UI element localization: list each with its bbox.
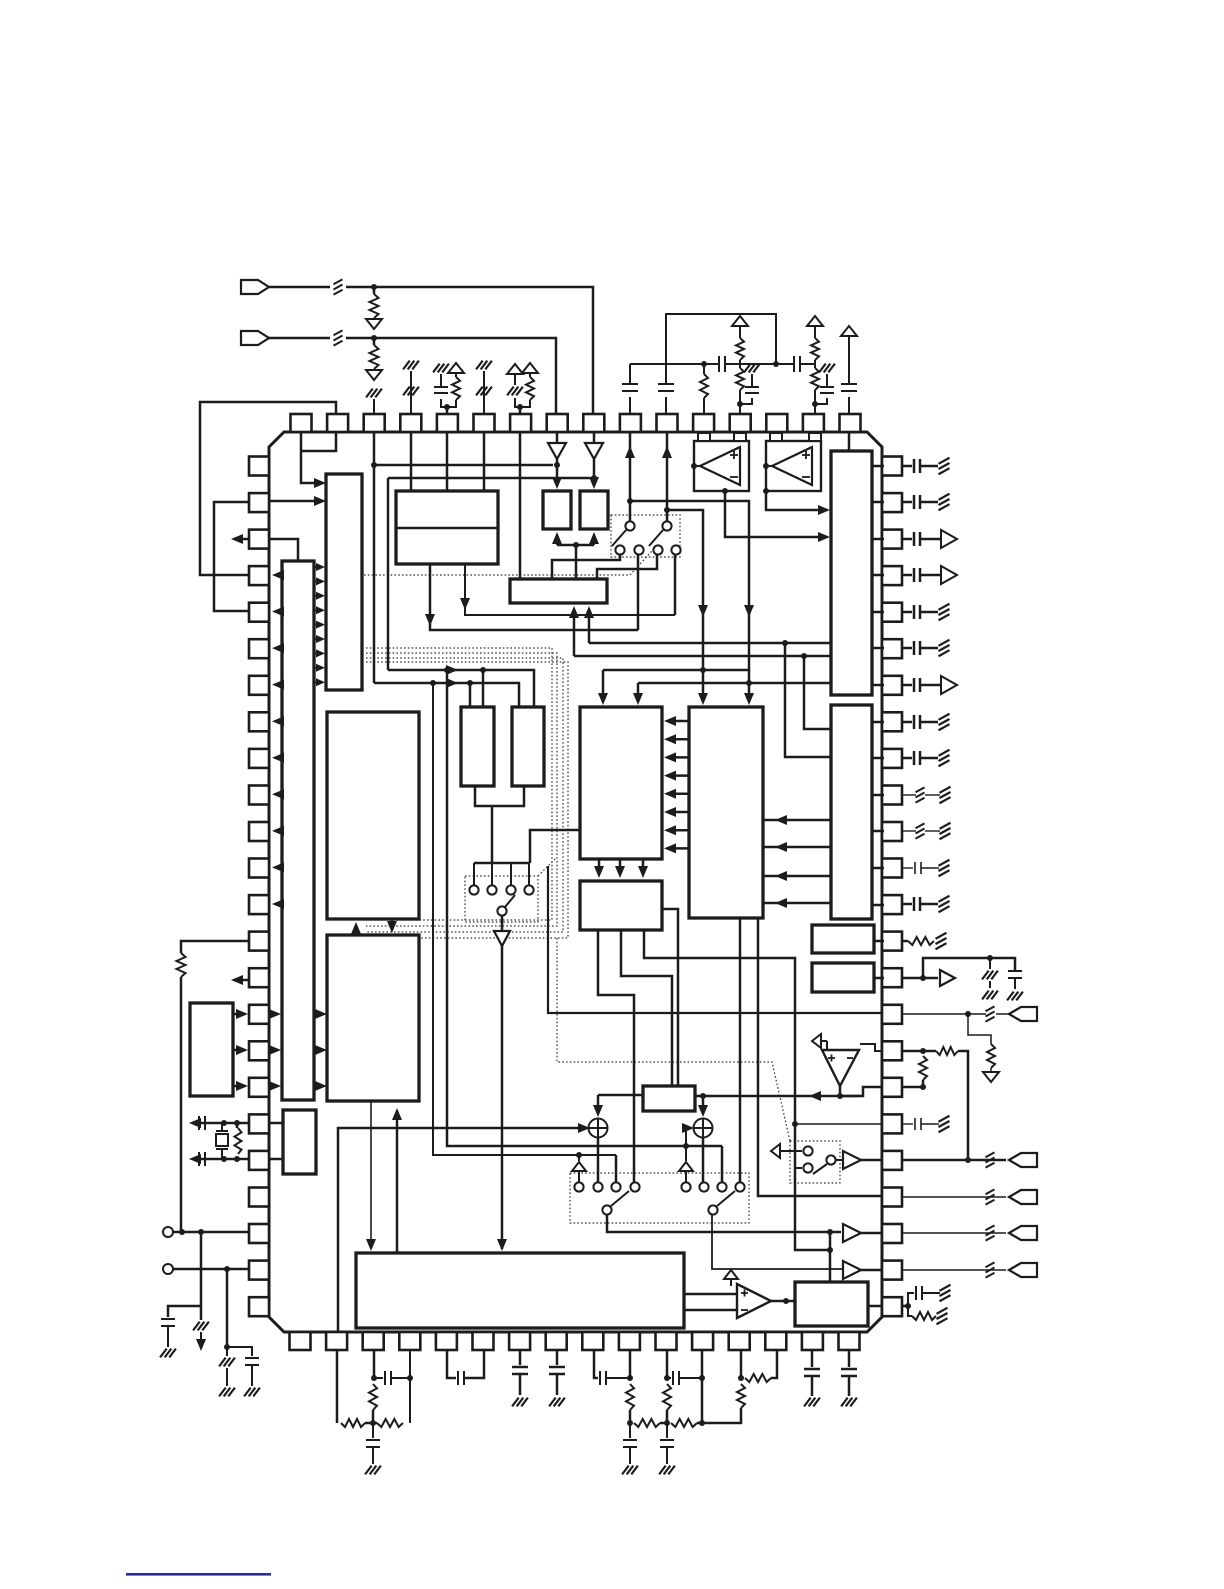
capacitor CRB2 <box>913 568 916 582</box>
node x795 pin45 <box>792 1121 798 1127</box>
capacitor C11 <box>198 1116 200 1130</box>
arrow A2 out 10 <box>272 899 284 909</box>
wire A2 to A1 8 <box>314 667 319 669</box>
arrow terminal TP1 tail <box>196 1339 206 1351</box>
node y683 x433 <box>430 680 436 686</box>
wire T2 stub pin 3 <box>872 794 884 797</box>
arrow to pin58 <box>662 446 672 458</box>
hatch terminal pin66 <box>366 389 373 398</box>
inline hatch pin46 <box>986 1152 995 1157</box>
switch SW2 lever2 <box>649 530 663 546</box>
capacitor CR5 <box>913 715 916 729</box>
ground hatch GH9 <box>622 1466 629 1475</box>
arrow A2-A1 4 <box>316 606 325 614</box>
wire pin58 down <box>666 432 669 521</box>
capacitor C17 <box>384 1371 386 1385</box>
switch SW2 lever1 <box>612 530 626 546</box>
arrow EX1 to pin 17 <box>236 1045 248 1055</box>
arrow into D2 <box>589 477 599 489</box>
wire R12 ends <box>236 1123 239 1128</box>
output pad J4 <box>1009 1153 1037 1167</box>
wire A2 to pin 12 <box>276 866 282 869</box>
switch SW4 lever <box>813 1164 827 1174</box>
wire right cap-buf 3b <box>920 684 940 687</box>
hatch terminal C16 <box>940 1285 951 1291</box>
wire pin34 down <box>519 1350 522 1365</box>
block C1 (logic array upper) <box>327 712 419 919</box>
node pin31 <box>627 1375 633 1381</box>
switch box SW4 dotted outline <box>790 1141 840 1183</box>
wire TP2 tail <box>226 1347 228 1356</box>
wire R15 to drop <box>958 1051 968 1160</box>
node pin29 drop <box>699 1375 705 1381</box>
wire R20 node <box>372 1410 375 1423</box>
dotted leader to switch box G <box>538 858 556 876</box>
node D merge <box>573 542 579 548</box>
wire V4 down <box>739 326 741 338</box>
capacitor C6 (series) <box>793 356 795 372</box>
wire A2 to pin 13 <box>276 903 282 906</box>
wire G to inverter <box>501 916 504 931</box>
op-amp U3 <box>822 1050 859 1086</box>
bias rail y364 seg3 <box>801 363 815 365</box>
wire T2 stub pin 2 <box>872 757 884 760</box>
arrow A2-A1 7 <box>316 649 325 657</box>
resistor R2 <box>370 345 379 369</box>
node TP2 b <box>224 1344 230 1350</box>
wire SW2 b4 drop <box>674 555 677 615</box>
wire H3 to SW3 <box>598 930 634 1183</box>
wire U1 out drop <box>725 491 824 537</box>
arrow A2 out 3 <box>272 643 284 653</box>
node J1 bias <box>371 284 377 290</box>
capacitor C22 <box>599 1371 601 1385</box>
capacitor C5 (series) <box>718 356 720 372</box>
node y656 x804 <box>801 653 807 659</box>
dotted bus staple a <box>366 648 552 920</box>
node filter2 <box>627 1420 633 1426</box>
node filter3b <box>699 1420 705 1426</box>
capacitor CRB3 <box>913 678 916 692</box>
capacitor C25 <box>660 1439 674 1441</box>
resistor R11 <box>177 953 186 977</box>
arrow into mixer X1 top <box>593 1105 603 1117</box>
hatch terminal C3 <box>433 364 440 373</box>
wire A2 to pin 9 <box>276 757 282 760</box>
wire TP1 tail <box>200 1332 202 1342</box>
switch SW3 contact h <box>735 1182 744 1191</box>
wire pin50 out <box>902 977 938 980</box>
wire G stub 3 <box>510 863 512 885</box>
arrow A2 out 7 <box>272 789 284 799</box>
node y670 x703 <box>700 667 706 673</box>
switch SW2 contact b2 <box>634 545 643 554</box>
wire SW2 b3 to E <box>597 555 657 579</box>
feedback loop pin58-pin55 <box>666 314 776 384</box>
wire R16 down <box>922 1080 925 1087</box>
wire C20 down <box>519 1374 522 1395</box>
wire pin19 to A3 <box>269 1122 283 1125</box>
wire SW2 b2 drop <box>637 555 640 630</box>
wire G stub 2 <box>491 863 493 885</box>
wire C13 down <box>167 1326 169 1347</box>
arrow C2 to K <box>366 1239 376 1251</box>
wire R6 up <box>703 364 705 374</box>
op-amp U5 <box>737 1284 771 1318</box>
capacitor C15 <box>1008 970 1022 972</box>
wire SW3 L out <box>607 1215 841 1232</box>
switch SW3 contact b <box>593 1182 602 1191</box>
hatch terminal right 7 <box>939 896 950 902</box>
wire pin36 down <box>447 1350 456 1378</box>
wire pin68 stub <box>446 407 449 414</box>
wire A2 to A1 5 <box>314 624 319 626</box>
arrow EX1 to pin 18 <box>236 1081 248 1091</box>
inline hatch on J1 wire <box>334 279 343 284</box>
IC body outline U100 (80-pin QFP) <box>269 432 882 1332</box>
wire pin26 down <box>811 1350 814 1367</box>
arrow A2 out 4 <box>272 680 284 690</box>
wire y1232 to L top <box>829 1232 832 1282</box>
wire right hatch-hatch 1b <box>925 794 940 796</box>
wire right cap-hatch 4b <box>920 647 938 650</box>
wire R2 stub <box>373 338 376 345</box>
wire pin68 cap branch <box>441 399 447 407</box>
node pin46 <box>965 1157 971 1163</box>
wire pin70 left up <box>514 374 516 385</box>
arrow H2-H1 3 <box>664 752 676 762</box>
arrow into H1 top1 <box>598 693 608 705</box>
switch G lever <box>505 895 515 907</box>
wire H1 to H3 2 <box>619 859 622 874</box>
wire pin38 down <box>373 1350 376 1378</box>
inline hatch pin49 <box>986 1006 995 1011</box>
buffer B1 <box>843 1151 861 1169</box>
dotted control bus horizontal <box>364 574 630 576</box>
block H3 (sub matrix) <box>580 881 662 930</box>
wire G bracket <box>474 862 530 865</box>
wire B2 out <box>861 1269 882 1272</box>
capacitor C20 <box>512 1366 528 1369</box>
wire F1 merge <box>475 786 524 806</box>
wire y683 feed F <box>374 683 519 707</box>
arrow A2 out 6 <box>272 753 284 763</box>
block T2 (video DAC) <box>831 705 872 919</box>
capacitor C3 <box>434 386 448 388</box>
wire right cap-hatch 6b <box>920 757 938 760</box>
wire pin2 to A1 <box>269 500 320 503</box>
wire D merge to E <box>575 545 578 579</box>
wire R1 stub <box>373 287 376 294</box>
block A3 (oscillator) <box>283 1110 316 1174</box>
resistor R5 <box>526 377 534 400</box>
wire right cap-buf 1b <box>920 538 940 541</box>
ground hatch GH12 <box>841 1398 848 1407</box>
wire filter3 link <box>697 1422 702 1425</box>
inline hatch pad 1 <box>986 1189 995 1194</box>
wire right cap-hatch 3 <box>902 611 912 614</box>
node filter1 <box>370 1420 376 1426</box>
arrow A2-A1 9 <box>316 678 325 686</box>
block T1 (RGB output DAC) <box>831 451 872 695</box>
ground hatch GH7 <box>512 1398 519 1407</box>
wire filter2 cap <box>629 1423 631 1438</box>
capacitor C12 <box>198 1152 200 1166</box>
supply tri SW3b <box>679 1162 693 1171</box>
wire F1 in a <box>482 670 485 707</box>
block H4 (reference 1) <box>812 925 874 953</box>
wire pin53 to T1 <box>848 432 851 451</box>
wire B3 out <box>861 1232 882 1235</box>
wire T2 to H2 1 <box>763 819 831 822</box>
hatch terminal right tc2 <box>939 1116 950 1122</box>
wire filter1 stub <box>365 1422 377 1425</box>
wire pin19 xtal <box>195 1122 249 1125</box>
hatch terminal right 1 <box>939 458 950 464</box>
switch SW3 lever L <box>611 1191 629 1206</box>
resistor R25 <box>745 1374 771 1382</box>
arrow to pin59 <box>625 446 635 458</box>
wire J2 continued <box>346 338 556 414</box>
wire A2 to A1 7 <box>314 652 319 654</box>
wire pin49 rc branch <box>968 1014 991 1044</box>
capacitor CR2 <box>913 495 916 509</box>
ground hatch GH5 <box>1007 992 1014 1001</box>
wire J1 continued <box>346 287 593 414</box>
wire right cap-hatch 3b <box>920 611 938 614</box>
node pin58 branch <box>664 507 670 513</box>
resistor R24 <box>671 1419 697 1427</box>
supply V7 <box>724 1270 738 1279</box>
node pin68 <box>444 404 450 410</box>
capacitor C14 <box>245 1357 259 1359</box>
node pin38 <box>371 1375 377 1381</box>
wire H2 to H1 6 <box>668 811 689 814</box>
wire C23 down <box>629 1447 631 1464</box>
arrow A2-A1 2 <box>316 577 325 585</box>
wire filter1 cap <box>372 1423 374 1438</box>
resistor R10 <box>811 368 819 390</box>
arrow A2 to C2 2 <box>315 1045 327 1055</box>
arrow into mixer X2 <box>682 1123 694 1133</box>
bias rail y364 seg2 <box>726 363 793 365</box>
arrow into mixer X2 top <box>698 1105 708 1117</box>
wire B out1 <box>465 564 675 615</box>
inline hatch pin70 <box>507 387 514 396</box>
wire C9 up <box>826 374 828 387</box>
wire right cap-buf 2b <box>920 574 940 577</box>
wire pin39 down <box>336 1350 339 1423</box>
output pad J5 <box>1009 1190 1037 1204</box>
hatch terminal R17 <box>937 1308 948 1314</box>
ground G1 <box>366 319 382 329</box>
wire T1 stub pin 5 <box>872 611 884 614</box>
capacitor C24 <box>672 1371 674 1385</box>
wire C24 to pin29 <box>679 1377 702 1379</box>
arrow into H2 top right <box>744 693 754 705</box>
buffer out marker 3 <box>941 676 957 694</box>
resistor R8 <box>736 368 744 390</box>
op-amp U1 <box>694 441 749 491</box>
inline hatch right 2 <box>916 823 925 828</box>
wire R6 to pin57 <box>703 398 705 414</box>
wire C16 right <box>922 1292 940 1294</box>
wire H5 stub <box>874 977 884 980</box>
input pad J1 <box>241 280 269 294</box>
wire right cap-hatch 7 <box>902 903 912 906</box>
wire R11 down <box>180 977 183 1232</box>
wire R5 up <box>529 373 531 377</box>
wire EX1 output 1 <box>233 1013 242 1016</box>
wire sw3 c3 corner <box>615 1155 618 1182</box>
wire A2 to A1 9 <box>314 681 319 683</box>
right pins 41..64 <box>882 457 902 476</box>
hatch terminal right 3 <box>939 604 950 610</box>
wire C15 down <box>1014 978 1016 989</box>
arrow B out2 <box>425 614 435 626</box>
wire C27 down <box>848 1376 851 1396</box>
node bias pin55 <box>773 361 779 367</box>
wire pin67 stub <box>410 371 412 414</box>
inline hatch pad 2 <box>986 1225 995 1230</box>
resistor R22 <box>634 1419 660 1427</box>
wire A2 to pin 7 <box>276 683 282 686</box>
wire sw3 c8 corner <box>721 1146 724 1182</box>
wire filter2 link <box>660 1422 667 1425</box>
arrow into E bottom1 <box>569 606 579 618</box>
node pin28 <box>738 1375 744 1381</box>
wire G stub 4 <box>528 863 530 885</box>
resistor R15 <box>936 1047 958 1055</box>
ground hatch GH3 <box>219 1388 226 1397</box>
wire pin31 down <box>629 1350 632 1378</box>
wire right hatch-hatch 2 <box>902 830 916 832</box>
wire right cap-hatch 4 <box>902 647 912 650</box>
node y1232 x830 <box>827 1229 833 1235</box>
wire M out drop <box>597 1095 600 1114</box>
node y1146 x686 <box>683 1143 689 1149</box>
wire pin33 down <box>556 1350 559 1365</box>
arrow K to C2 <box>392 1108 402 1120</box>
capacitor C7 <box>658 383 674 385</box>
arrow A2 out 9 <box>272 862 284 872</box>
node TP1 b <box>198 1229 204 1235</box>
wire A2 to pin 6 <box>276 647 282 650</box>
wire y501 to H2 <box>630 501 749 700</box>
wire C25 down <box>666 1447 668 1464</box>
arrow T2-H2 3 <box>775 871 787 881</box>
wire right hatch-hatch 1 <box>902 794 916 796</box>
capacitor C21 <box>549 1366 565 1369</box>
block EX1 (external IC) <box>190 1003 233 1096</box>
wire V5 down <box>814 326 816 338</box>
wire y510 to H2 <box>667 510 703 700</box>
switch SW4 contact 2 <box>803 1163 812 1172</box>
arrow T2-H2 2 <box>775 842 787 852</box>
wire pin70 left branch <box>515 398 520 407</box>
wire T2 to H2 4 <box>763 902 831 905</box>
node xtal a1 <box>221 1120 227 1126</box>
arrow y683 <box>446 678 458 688</box>
wire E in2 riser <box>588 609 591 643</box>
flag F2 (SW4) <box>771 1144 780 1158</box>
wire H4 stub <box>874 940 884 943</box>
resistor R12 <box>235 1128 242 1154</box>
resistor R4 <box>452 377 460 400</box>
node y670 x447 <box>444 667 450 673</box>
wire pin51 res <box>902 940 908 943</box>
capacitor CRB1 <box>913 532 916 546</box>
wire U5 minus in <box>684 1309 737 1312</box>
arrow mid x749 <box>744 605 754 617</box>
wire H1 to H3 3 <box>642 859 645 874</box>
capacitor C18 <box>366 1439 380 1441</box>
wire pin58 cap stub <box>665 397 667 414</box>
wire pin16 to A2 <box>269 1013 275 1016</box>
wire right cap-hatch 5 <box>902 721 912 724</box>
node pin42 <box>905 1303 911 1309</box>
inverter N3 <box>494 931 510 946</box>
wire filter3 cap <box>666 1423 668 1438</box>
wire pin30 down <box>666 1350 669 1378</box>
wire A2 to A1 6 <box>314 638 319 640</box>
resistor R9 <box>811 338 819 360</box>
node TP1 a <box>179 1229 185 1235</box>
wire pin50 rail <box>923 958 1015 978</box>
switch G contact 1 <box>469 885 478 894</box>
wire pin67 to B <box>410 432 413 491</box>
capacitor CR6 <box>913 751 916 765</box>
wire TP2 right branch <box>227 1347 252 1356</box>
wire sw3 c6 feed2 <box>685 1171 687 1182</box>
wire sense to pin49 <box>548 866 882 1013</box>
wire pin80-pin78 jog to A1 <box>301 432 320 483</box>
arrow A2 to C2 3 <box>315 1081 327 1091</box>
wire T2 to H2 2 <box>763 846 831 849</box>
wire A2 to C2 1 <box>314 1013 321 1016</box>
wire TP1 to pin22 <box>173 1231 249 1234</box>
wire H2 to H1 4 <box>668 774 689 777</box>
hatch terminal pin69 <box>476 361 483 370</box>
capacitor CRT2 <box>914 1118 916 1130</box>
wire pin3 out <box>234 538 249 541</box>
wire TP1 branch down <box>200 1232 203 1320</box>
bias rail y364 seg1 <box>630 363 718 365</box>
wire J1 to pin 73 <box>269 286 330 289</box>
arrow into A2 1 <box>269 1009 281 1019</box>
footer rule <box>126 1573 271 1576</box>
block H1 (chroma decoder) <box>580 707 662 859</box>
output pad J6 <box>1009 1226 1037 1240</box>
wire A2 to C2 2 <box>314 1049 321 1052</box>
wire H1 in1 drop <box>602 670 605 700</box>
ground hatch GH2 <box>244 1388 251 1397</box>
wire right cap-hatch 1 <box>902 465 912 468</box>
switch SW3 contact e <box>681 1182 690 1191</box>
arrow into D2 bottom <box>589 532 599 544</box>
capacitor C16 <box>915 1286 917 1300</box>
wire C18 down <box>372 1447 374 1464</box>
arrow B out1 <box>460 598 470 610</box>
output pad J3 <box>1009 1007 1037 1021</box>
wire right cap-hatch 2 <box>902 501 912 504</box>
switch SW4 contact 3 <box>826 1155 835 1164</box>
wire y656 rail <box>574 655 831 658</box>
wire pin70 stub <box>519 407 522 414</box>
wire T1 stub pin 3 <box>872 538 884 541</box>
wire SW2 b1 to E <box>552 555 620 579</box>
wire A2 to pin 8 <box>276 720 282 723</box>
